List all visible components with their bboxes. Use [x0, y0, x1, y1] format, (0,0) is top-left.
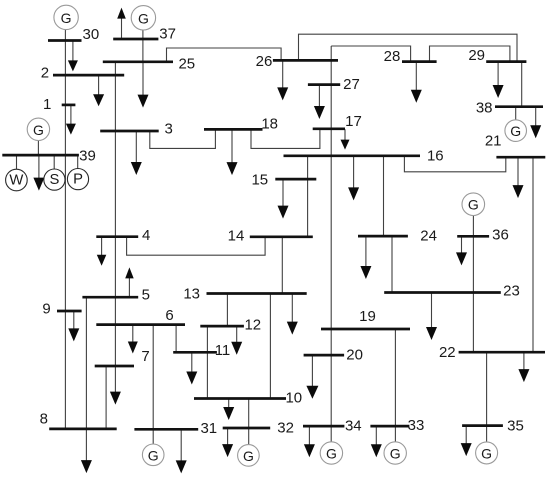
svg-text:G: G: [481, 445, 492, 461]
bus 29: [468, 47, 526, 64]
bus 24: [358, 228, 437, 245]
svg-text:7: 7: [141, 348, 149, 365]
svg-text:30: 30: [83, 26, 100, 43]
svg-text:6: 6: [165, 307, 173, 324]
svg-text:15: 15: [251, 172, 268, 189]
wire 26-27-17-16-19-20-34 trunk and G34 stub: [330, 46, 332, 442]
svg-text:1: 1: [43, 96, 51, 113]
wire 12-11-10: [206, 326, 208, 398]
bus 27: [308, 76, 360, 93]
wire jog 18-17: [251, 129, 320, 149]
wire jog 26-29: [299, 34, 518, 61]
svg-text:24: 24: [420, 228, 437, 245]
svg-text:W: W: [9, 173, 23, 189]
bus 6: [96, 307, 185, 325]
generator G at bus 32: [238, 445, 260, 467]
svg-text:8: 8: [40, 411, 48, 428]
load at bus 33: [371, 427, 382, 458]
bus 18: [204, 116, 278, 133]
load at bus 21: [513, 158, 524, 199]
bus 3: [100, 120, 173, 137]
load at bus 28: [411, 62, 422, 103]
bus 2: [41, 65, 124, 82]
svg-text:36: 36: [492, 226, 509, 243]
load at bus 3: [131, 131, 142, 175]
bus 23: [384, 283, 520, 300]
svg-text:11: 11: [215, 342, 231, 359]
bus 33: [370, 417, 424, 434]
load at bus 8: [81, 429, 92, 473]
svg-text:28: 28: [384, 48, 401, 65]
bus 1: [43, 96, 75, 113]
wire 13-10: [269, 294, 271, 399]
load at bus 15: [278, 180, 289, 219]
wire W stub: [16, 155, 18, 169]
load at bus 18: [227, 130, 238, 175]
wire jog 25-26: [167, 48, 282, 62]
up arrow bus5 to bus4: [125, 267, 134, 296]
wire 5-8: [85, 297, 87, 429]
bus 22: [439, 344, 545, 361]
svg-text:13: 13: [183, 286, 200, 303]
svg-text:G: G: [510, 123, 521, 139]
wire P stub: [77, 155, 79, 169]
wire jog 4-14: [127, 237, 266, 256]
bus 38: [476, 100, 543, 117]
storage unit S at bus 39: [44, 169, 65, 190]
svg-text:G: G: [61, 10, 72, 26]
bus 35: [462, 417, 524, 434]
wire 25-2-3-4-5-6-7 chain: [114, 62, 116, 366]
bus 34: [303, 418, 362, 435]
svg-text:39: 39: [79, 148, 96, 165]
bus 25: [103, 55, 195, 72]
generator G at bus 30: [54, 5, 78, 29]
wire jog 3-18: [150, 129, 216, 148]
load arrow bus30 to bus2: [68, 42, 78, 72]
bus 21: [485, 133, 545, 158]
load at bus 13: [287, 294, 298, 335]
svg-text:32: 32: [277, 419, 294, 436]
PV unit P at bus 39: [67, 169, 88, 190]
load at bus 4: [97, 237, 107, 266]
svg-text:12: 12: [244, 316, 261, 333]
svg-text:22: 22: [439, 344, 456, 361]
svg-text:21: 21: [485, 133, 502, 150]
load at bus 24: [360, 237, 371, 280]
svg-text:G: G: [243, 448, 254, 464]
wire jog 16-21: [404, 156, 505, 172]
load at bus 39: [33, 156, 44, 191]
load at bus 35: [461, 426, 472, 456]
wire 6-31 and G31 stub: [152, 325, 154, 444]
bus 4: [96, 227, 150, 244]
wire 13-12: [226, 294, 228, 327]
svg-text:3: 3: [165, 120, 173, 137]
svg-text:G: G: [33, 122, 44, 138]
svg-text:19: 19: [359, 308, 376, 325]
svg-text:38: 38: [476, 100, 493, 117]
load at bus 11: [186, 353, 197, 385]
svg-text:17: 17: [345, 113, 362, 130]
bus 20: [304, 347, 363, 364]
bus 37: [113, 26, 176, 43]
bus 26: [256, 53, 338, 70]
svg-text:G: G: [148, 447, 159, 463]
wind unit W at bus 39: [6, 169, 28, 191]
wire 22-35 and G35 stub: [486, 352, 488, 442]
load at bus 6: [128, 325, 138, 354]
wire 29-38: [521, 62, 523, 107]
wire 6-11: [175, 325, 177, 353]
load arrow bus1 to bus39: [66, 106, 76, 135]
generator G at bus 31: [142, 444, 164, 466]
svg-text:31: 31: [200, 420, 217, 437]
wire 24-23: [391, 236, 393, 292]
load at bus 20: [306, 356, 318, 399]
bus 12: [200, 316, 261, 333]
bus 14: [228, 228, 313, 245]
svg-text:29: 29: [468, 47, 485, 64]
wire G30-30-2-1-39-9-8 (left trunk): [64, 30, 66, 429]
svg-text:25: 25: [178, 55, 195, 72]
load at bus 25: [138, 62, 149, 107]
up arrow at bus 37: [117, 8, 126, 39]
load at bus 9: [68, 311, 79, 341]
wire 16-24: [383, 156, 385, 236]
wire G39 stub: [37, 140, 39, 155]
wire G36-36-23-22: [472, 216, 474, 353]
small arrow at bus 17: [341, 129, 350, 149]
load at bus 7: [110, 366, 121, 404]
bus 11: [173, 342, 230, 359]
load at bus 31: [176, 430, 187, 474]
bus 28: [384, 48, 437, 65]
load at bus 10: [223, 399, 234, 420]
load at bus 36: [456, 237, 467, 266]
wire jog 28-29: [430, 46, 510, 62]
load at bus 23: [426, 293, 437, 340]
svg-text:14: 14: [228, 228, 245, 245]
bus 9: [42, 301, 81, 318]
bus 10: [194, 390, 302, 407]
svg-text:35: 35: [507, 417, 524, 434]
svg-text:10: 10: [285, 390, 302, 407]
load at bus 12: [231, 327, 242, 355]
svg-text:S: S: [49, 172, 59, 188]
load at bus 38: [530, 107, 541, 138]
svg-text:9: 9: [42, 301, 50, 318]
generator G at bus 33: [384, 442, 406, 464]
svg-text:20: 20: [346, 347, 363, 364]
wire 19-33 and G33 stub: [394, 329, 396, 442]
generator G at bus 35: [476, 442, 498, 464]
generator G at bus 37: [131, 6, 155, 30]
load at bus 27: [314, 85, 325, 119]
bus 30: [48, 26, 99, 43]
bus 5: [82, 286, 150, 303]
svg-text:5: 5: [142, 286, 150, 303]
bus 19: [321, 308, 410, 329]
load at bus 22: [518, 353, 529, 383]
svg-text:18: 18: [261, 116, 278, 133]
svg-text:G: G: [390, 446, 401, 462]
bus 7: [95, 348, 150, 366]
svg-text:34: 34: [345, 418, 362, 435]
svg-text:4: 4: [142, 227, 150, 244]
generator G at bus 38: [505, 120, 527, 142]
bus 8: [40, 411, 117, 429]
svg-text:27: 27: [343, 76, 360, 93]
load at bus 34: [304, 427, 315, 458]
bus 13: [183, 286, 306, 303]
svg-text:G: G: [326, 446, 337, 462]
bus 31: [134, 420, 217, 437]
svg-text:37: 37: [159, 26, 176, 43]
svg-text:P: P: [73, 172, 83, 188]
wire G37-37-25: [142, 30, 144, 62]
svg-text:33: 33: [408, 417, 425, 434]
generator G at bus 34: [320, 442, 342, 464]
wire jog 26-28: [331, 46, 410, 62]
load at bus 16: [348, 156, 359, 200]
load at bus 32: [222, 427, 233, 457]
load at bus 26: [277, 61, 288, 101]
wire 16-15-14: [307, 156, 309, 237]
generator G at bus 39: [27, 118, 49, 140]
load at bus 2: [93, 76, 104, 107]
svg-text:G: G: [138, 10, 149, 26]
svg-text:23: 23: [503, 283, 520, 300]
svg-text:26: 26: [256, 53, 273, 70]
svg-text:16: 16: [427, 147, 444, 164]
generator G at bus 36: [462, 193, 485, 216]
wire 14-13: [281, 237, 283, 294]
wire 7-8: [105, 366, 107, 429]
wire 10-32 and G32 stub: [248, 399, 250, 445]
wire S stub: [53, 155, 55, 169]
bus 32: [223, 419, 294, 436]
load at bus 29: [493, 62, 504, 98]
bus 36: [457, 226, 509, 243]
svg-text:2: 2: [41, 65, 49, 82]
bus 16: [284, 147, 444, 164]
wire 21-22: [532, 157, 534, 352]
bus 15: [251, 172, 316, 189]
bus 17: [313, 113, 362, 130]
bus 39: [2, 148, 96, 165]
wire G38 stub: [515, 107, 517, 120]
svg-text:G: G: [468, 197, 479, 213]
